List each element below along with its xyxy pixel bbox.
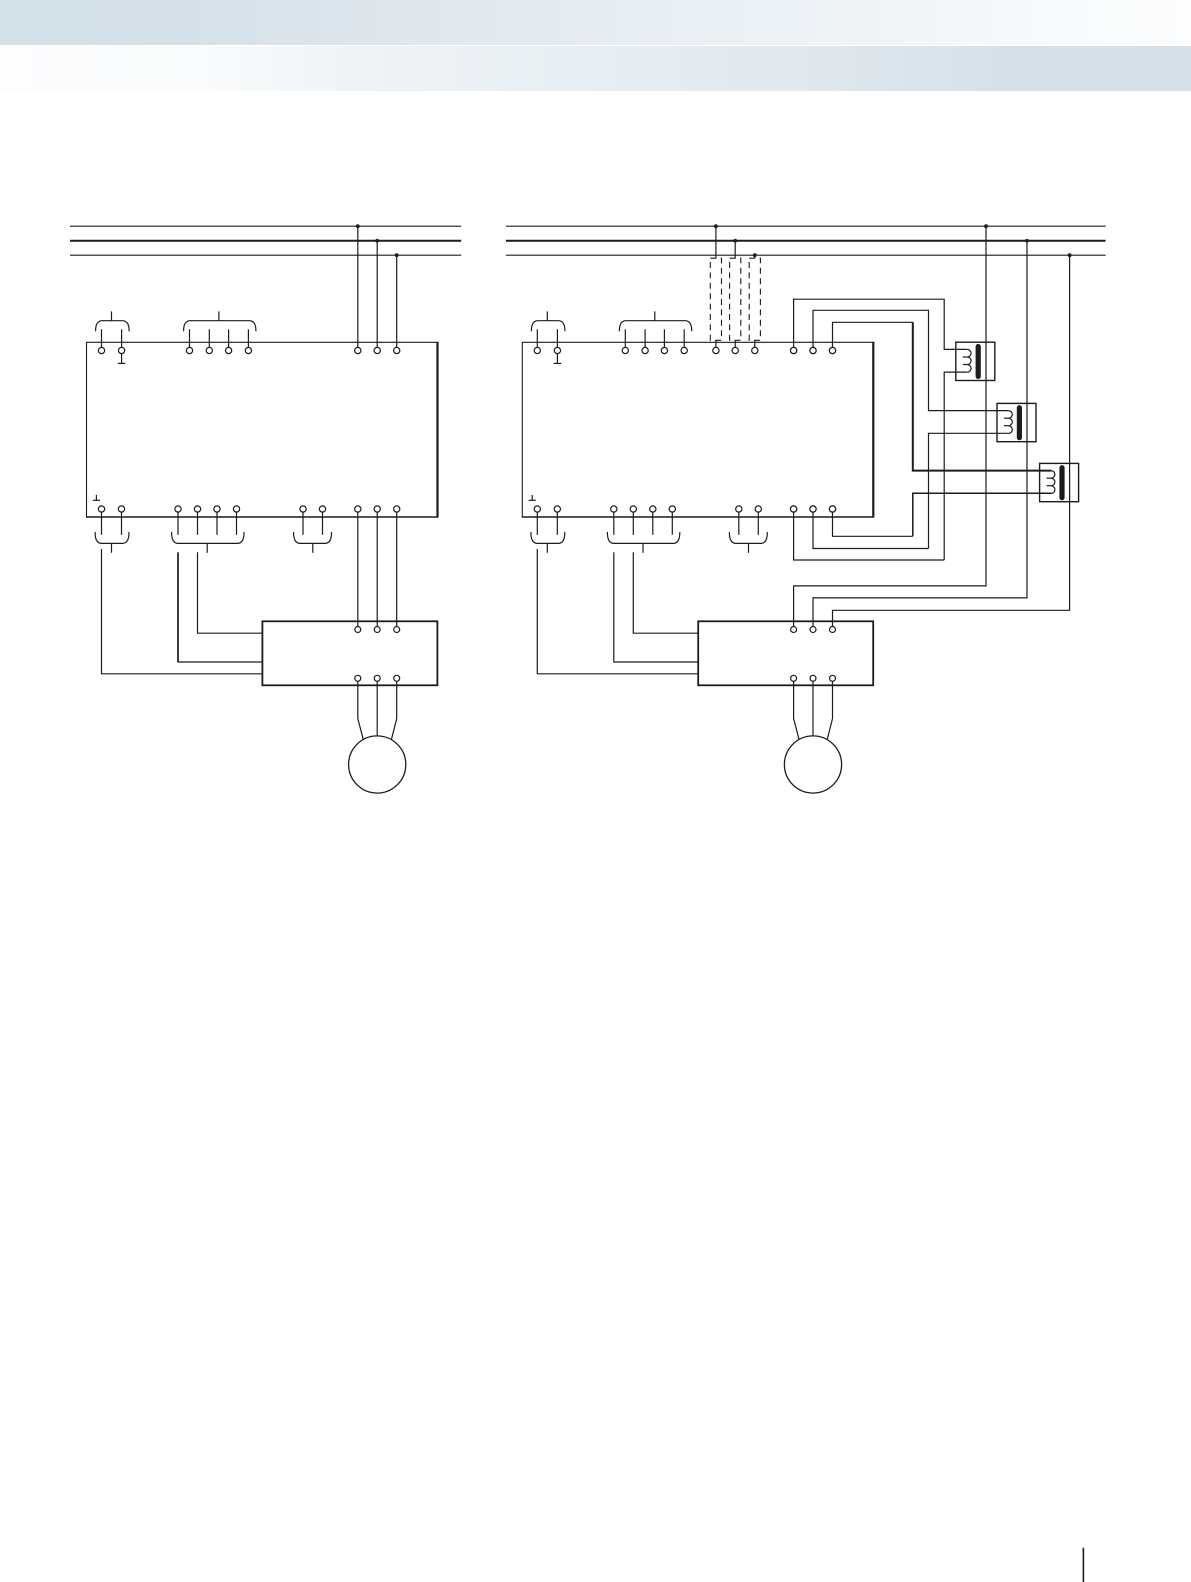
wire CT3 column to CT3 secondary bottom (913, 493, 1051, 536)
wire T3 to bypass contactor (396, 512, 398, 626)
bypass input terminal 3 (830, 627, 836, 633)
wire U to motor (358, 682, 363, 740)
terminal FAN11 (98, 506, 104, 512)
plug IO2 cable tail (642, 543, 644, 552)
bypass contactor box (diagram 2) (698, 621, 873, 685)
terminal V2 (CT secondary +) (810, 347, 816, 353)
bypass input terminal 2 (810, 627, 816, 633)
plug CTRL2 cable tail (654, 311, 656, 320)
junction node L2 fuse tap (733, 239, 737, 243)
terminal 1/L1 (diagram 2) (790, 347, 796, 353)
wire terminal V1 to CT1 secondary top (794, 299, 968, 349)
terminal AUX12 (319, 506, 325, 512)
plug IO2 pin 3 wire (652, 512, 654, 535)
terminal 6/T3 (diagram 2) (829, 506, 835, 512)
wire T2 to bypass contactor (376, 512, 378, 626)
plug CL2 pin 1 wire (536, 329, 538, 347)
CT1 primary bar (976, 347, 981, 377)
power line L3 (diagram 2) (506, 254, 1106, 256)
plug CTRL1 pin 4 wire (247, 329, 249, 347)
page footer rule (1082, 1548, 1084, 1582)
terminal 4/T2 (diagram 1) (374, 506, 380, 512)
plug CL2 pin 2 wire (556, 329, 558, 347)
header gradient band bottom (0, 46, 1191, 92)
terminal CTRL11 (186, 347, 192, 353)
wire T1 to bypass contactor (357, 512, 359, 626)
terminal V1 (CT secondary +) (790, 347, 796, 353)
terminal IO23 (650, 506, 656, 512)
soft starter box bottom edge (diagram 2) (522, 516, 874, 518)
plug CTRL1 cable tail (218, 311, 220, 320)
plug AUX1 pin 1 wire (302, 512, 304, 535)
connector plug AUX2 (bracket) (729, 532, 767, 543)
terminal CTRL14 (245, 347, 251, 353)
bypass contactor box (diagram 1) (262, 621, 437, 685)
bypass output terminal 3 (830, 675, 836, 681)
motor M2 (784, 736, 841, 793)
fuse F3 lower stub (754, 340, 756, 347)
terminal CL22 (554, 347, 560, 353)
terminal L2 (fused input) (732, 347, 738, 353)
terminal 5/L3 (diagram 1) (394, 347, 400, 353)
power line L1 (diagram 2) (506, 225, 1106, 227)
terminal CL21 (534, 347, 540, 353)
plug FAN2 pin 2 wire (556, 512, 558, 535)
wire plug FAN to bypass contactor (537, 549, 698, 674)
wire plug IO pin1 to bypass contactor (177, 552, 179, 662)
CT3 primary bar (1059, 468, 1064, 498)
connector plug CTRL1 (bracket) (184, 321, 256, 332)
terminal L1 (fused input) (713, 347, 719, 353)
CT2 secondary coil (1008, 411, 1012, 434)
soft starter unit box (diagram 1) (87, 342, 438, 517)
plug IO1 pin 2 wire (197, 512, 199, 535)
terminal 2/T1 (diagram 1) (355, 506, 361, 512)
plug CTRL2 pin 3 wire (663, 329, 665, 347)
terminal W2 (CT secondary -) (810, 506, 816, 512)
terminal CL11 (98, 347, 104, 353)
fuse F1 lower stub (715, 340, 717, 347)
plug CL2 cable tail (546, 311, 548, 320)
current transformer CT1 box (956, 342, 995, 380)
bypass output terminal 2 (810, 675, 816, 681)
bypass input terminal 1 (355, 627, 361, 633)
connector plug IO1 (bracket) (172, 532, 244, 543)
wire W to motor (827, 682, 832, 740)
header gradient band top (0, 0, 1191, 45)
plug AUX2 cable tail (748, 543, 750, 552)
ground symbol at control terminal 2 (556, 354, 558, 364)
terminal AUX22 (755, 506, 761, 512)
terminal IO13 (214, 506, 220, 512)
plug IO2 pin 2 wire (632, 512, 634, 535)
bypass input terminal 3 (394, 627, 400, 633)
plug FAN1 pin 2 wire (121, 512, 123, 535)
plug FAN2 cable tail (546, 543, 548, 552)
wire CT2 column to CT2 secondary bottom (929, 433, 1009, 548)
bypass output terminal 1 (355, 675, 361, 681)
junction node L1 (356, 224, 360, 228)
ground symbol in box 1 (95, 495, 97, 500)
bypass output terminal 1 (791, 675, 797, 681)
wire terminal W2 to CT2 secondary bottom (813, 512, 929, 548)
wire terminal W1 to CT1 secondary bottom (794, 512, 945, 560)
plug IO2 pin 1 wire (613, 512, 615, 535)
junction node L3 fuse tap (753, 253, 757, 257)
soft starter box right edge (shadow, diagram 2) (872, 342, 874, 518)
plug CTRL2 pin 2 wire (644, 329, 646, 347)
terminal CTRL24 (681, 347, 687, 353)
terminal CTRL12 (206, 347, 212, 353)
ground symbol at control terminal 1 (121, 354, 123, 364)
terminal IO24 (669, 506, 675, 512)
terminal IO22 (630, 506, 636, 512)
wire V to motor (376, 682, 378, 737)
bypass input terminal 1 (791, 627, 797, 633)
wire terminal V2 to CT2 secondary top (813, 310, 1008, 410)
terminal 4/T2 (diagram 2) (810, 506, 816, 512)
plug CTRL1 pin 3 wire (228, 329, 230, 347)
wire L1 stub to fuse (715, 226, 717, 258)
soft starter box bottom edge (diagram 1) (86, 516, 438, 518)
bypass output terminal 2 (374, 675, 380, 681)
wire L3 drop to terminal (396, 255, 398, 347)
wire U to motor (794, 682, 799, 740)
wire terminal W3 to CT3 secondary bottom (833, 512, 913, 536)
wire L1 drop to terminal (357, 226, 359, 347)
terminal CTRL21 (622, 347, 628, 353)
plug AUX1 cable tail (312, 543, 314, 552)
terminal IO14 (233, 506, 239, 512)
terminal 1/L1 (diagram 1) (355, 347, 361, 353)
terminal CTRL23 (661, 347, 667, 353)
terminal IO11 (175, 506, 181, 512)
CT3 secondary coil (1051, 471, 1055, 494)
wire W to motor (392, 682, 397, 740)
phase wire L1 through CT1 to bypass contactor (794, 226, 986, 626)
phase wire L3 through CT3 to bypass contactor (833, 255, 1070, 626)
terminal 6/T3 (diagram 1) (394, 506, 400, 512)
plug IO1 pin 1 wire (177, 512, 179, 535)
current transformer CT2 box (997, 403, 1036, 441)
bypass output terminal 3 (394, 675, 400, 681)
terminal AUX11 (300, 506, 306, 512)
plug IO1 pin 3 wire (216, 512, 218, 535)
plug AUX1 pin 2 wire (322, 512, 324, 535)
connector plug CTRL2 (bracket) (619, 321, 691, 332)
terminal CTRL22 (642, 347, 648, 353)
wire plug IO pin2 to bypass contactor (198, 552, 263, 633)
plug AUX2 pin 1 wire (738, 512, 740, 535)
junction node L3 main tap (1068, 253, 1072, 257)
plug AUX2 pin 2 wire (757, 512, 759, 535)
terminal IO21 (611, 506, 617, 512)
wire CT1 column to CT1 secondary bottom (944, 372, 967, 560)
power line L1 (diagram 1) (70, 225, 461, 227)
junction node L1 fuse tap (714, 224, 718, 228)
terminal FAN21 (534, 506, 540, 512)
power line L2 (diagram 1) (70, 240, 461, 242)
wire terminal V3 to CT3 column (833, 322, 913, 347)
CT1 secondary coil (967, 349, 971, 372)
terminal 3/L2 (diagram 1) (374, 347, 380, 353)
plug IO1 pin 4 wire (236, 512, 238, 535)
soft starter unit box (diagram 2) (522, 342, 873, 517)
terminal CTRL13 (225, 347, 231, 353)
wire plug FAN to bypass contactor (102, 549, 263, 674)
terminal W3 (CT secondary -) (829, 506, 835, 512)
plug FAN2 pin 1 wire (536, 512, 538, 535)
plug FAN1 cable tail (111, 543, 113, 552)
terminal CL12 (118, 347, 124, 353)
plug FAN1 pin 1 wire (101, 512, 103, 535)
plug CL1 cable tail (111, 311, 113, 320)
terminal AUX21 (736, 506, 742, 512)
terminal 2/T1 (diagram 2) (790, 506, 796, 512)
power line L2 (diagram 2) (506, 240, 1106, 242)
wire CT3 column to CT3 secondary top (thick) (913, 322, 1051, 470)
terminal V3 (CT secondary +) (829, 347, 835, 353)
terminal FAN12 (118, 506, 124, 512)
power line L3 (diagram 1) (70, 254, 461, 256)
wire V to motor (812, 682, 814, 737)
wire L2 drop to terminal (376, 241, 378, 348)
connector plug IO2 (bracket) (607, 532, 679, 543)
soft starter box right edge (shadow, diagram 1) (436, 342, 438, 518)
junction node L1 main tap (984, 224, 988, 228)
fuse/disconnect F2 (dashed, optional) (730, 258, 741, 340)
bypass input terminal 2 (374, 627, 380, 633)
plug CTRL1 pin 1 wire (189, 329, 191, 347)
terminal L3 (fused input) (752, 347, 758, 353)
plug IO1 cable tail (206, 543, 208, 552)
wire L2 stub to fuse (734, 241, 736, 258)
plug IO2 pin 4 wire (671, 512, 673, 535)
current transformer CT3 box (1040, 463, 1079, 501)
connector plug AUX1 (bracket) (294, 532, 332, 543)
connector plug CL2 (bracket) (531, 321, 565, 332)
ground symbol in box 2 (531, 495, 533, 500)
wire L3 stub to fuse (754, 255, 756, 258)
connector plug CL1 (bracket) (96, 321, 130, 332)
junction node L2 main tap (1025, 239, 1029, 243)
terminal W1 (CT secondary -) (790, 506, 796, 512)
junction node L2 (375, 239, 379, 243)
CT2 primary bar (1017, 408, 1022, 438)
fuse/disconnect F1 (dashed, optional) (710, 258, 721, 340)
plug CTRL1 pin 2 wire (208, 329, 210, 347)
fuse/disconnect F3 (dashed, optional) (749, 258, 760, 340)
plug CL1 pin 1 wire (101, 329, 103, 347)
terminal FAN22 (554, 506, 560, 512)
phase wire L2 through CT2 to bypass contactor (813, 241, 1027, 627)
terminal 3/L2 (diagram 2) (810, 347, 816, 353)
plug CL1 pin 2 wire (121, 329, 123, 347)
plug CTRL2 pin 1 wire (624, 329, 626, 347)
junction node L3 (395, 253, 399, 257)
terminal IO12 (194, 506, 200, 512)
connector plug FAN2 (bracket) (531, 532, 565, 543)
fuse F2 lower stub (734, 340, 736, 347)
connector plug FAN1 (bracket) (95, 532, 129, 543)
motor M1 (349, 736, 406, 793)
plug CTRL2 pin 4 wire (683, 329, 685, 347)
wire plug IO pin2 to bypass contactor (633, 552, 698, 633)
terminal 5/L3 (diagram 2) (829, 347, 835, 353)
wire plug IO pin1 to bypass contactor (614, 552, 698, 662)
